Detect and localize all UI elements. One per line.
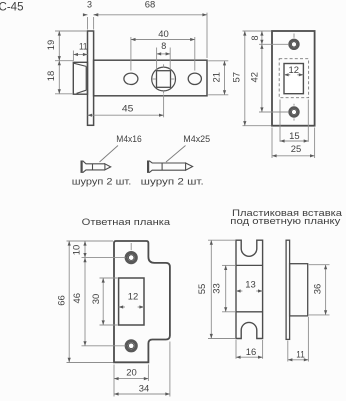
dim 3 (faceplate thickness) ext lines: [87, 17, 89, 30]
svg-text:33: 33: [211, 283, 221, 294]
dim 57 ext line: [243, 125, 272, 127]
svg-text:11: 11: [79, 42, 88, 52]
screw M4x25: [148, 161, 193, 173]
svg-text:под ответную планку: под ответную планку: [230, 216, 340, 227]
dim 8 line+arrows: [157, 53, 171, 55]
dim 68 line+arrows: [94, 14, 207, 16]
faceplate front view: dashed cutout: [279, 59, 308, 98]
latch side view: spindle square hole: [157, 71, 171, 88]
dim 13 arrows: [236, 290, 242, 292]
svg-text:8: 8: [161, 41, 166, 51]
svg-text:12: 12: [289, 65, 300, 75]
dim 20 line+arrows: [114, 378, 148, 380]
faceplate front view: bottom screw hole: [290, 108, 299, 117]
insert side view flange: [286, 240, 290, 339]
svg-text:30: 30: [91, 294, 101, 305]
dim 57 line+arrows: [244, 31, 246, 126]
dim 16 line+arrows: [236, 356, 263, 358]
strike plate top hole: [126, 253, 136, 263]
dim 15 line+arrows: [280, 140, 308, 142]
dim 66 line+arrows: [68, 241, 70, 362]
dim 45 line+arrows: [88, 114, 164, 116]
svg-text:3: 3: [87, 0, 92, 10]
svg-text:45: 45: [122, 103, 134, 113]
dim 30 ext lines: [100, 277, 118, 279]
svg-text:13: 13: [245, 279, 256, 289]
latch side view: spindle circle: [152, 67, 176, 91]
svg-text:57: 57: [232, 72, 242, 83]
latch side view: square centerline ticks: [153, 78, 157, 80]
screw M4x16: [82, 161, 111, 173]
dim 55 line+arrows: [210, 240, 212, 338]
svg-text:66: 66: [57, 295, 67, 306]
dim 3 line+arrows: [83, 14, 88, 16]
insert front view divider bottom: [236, 311, 263, 313]
svg-text:12: 12: [128, 291, 139, 301]
dim 25 line+arrows: [272, 155, 315, 157]
svg-text:C-45: C-45: [0, 2, 24, 14]
dim 55 ext lines: [208, 239, 235, 241]
svg-text:20: 20: [126, 368, 137, 378]
dim 68 ext line: [206, 13, 208, 58]
faceplate front view: plate: [272, 31, 315, 126]
dim 11 line+arrows: [73, 54, 87, 56]
dim 11 line+arrows: [288, 359, 309, 361]
dim 66 ext lines: [67, 240, 114, 242]
dim 10 line+arrows: [84, 241, 86, 258]
svg-text:шуруп 2 шт.: шуруп 2 шт.: [141, 176, 204, 186]
insert front view outline: [236, 240, 263, 338]
dim 11 ext line: [72, 51, 74, 62]
svg-text:10: 10: [72, 245, 82, 256]
faceplate front view: latch window: [284, 64, 303, 94]
latch side view: right oval hole: [188, 73, 201, 84]
dim 8 (plate) line+arrows: [261, 31, 263, 44]
dim 33 line+arrows: [225, 265, 227, 311]
dim 34 line+arrows: [114, 393, 170, 395]
svg-text:34: 34: [139, 383, 150, 393]
svg-text:68: 68: [145, 0, 156, 10]
svg-text:Ответная планка: Ответная планка: [82, 217, 171, 228]
svg-text:18: 18: [46, 71, 56, 82]
svg-text:16: 16: [246, 347, 257, 357]
svg-text:шуруп 2 шт.: шуруп 2 шт.: [72, 176, 132, 186]
dim 42 ext line: [259, 111, 289, 113]
svg-text:19: 19: [46, 40, 56, 51]
strike plate outline: [114, 241, 170, 362]
svg-text:40: 40: [158, 29, 169, 39]
dim 19 line+arrows: [58, 31, 60, 61]
dim 34 ext line: [169, 342, 171, 397]
svg-text:M4x25: M4x25: [183, 134, 210, 144]
dim 12 (strike window) arrows: [119, 306, 125, 308]
dim 46 line+arrows: [84, 258, 86, 346]
dim 36 ext lines: [309, 264, 330, 266]
dim 19 ext lines: [55, 30, 87, 32]
strike plate bottom hole: [126, 341, 136, 351]
latch side view: left oval hole: [124, 73, 138, 84]
svg-text:55: 55: [197, 284, 207, 295]
dim 20 ext lines: [113, 365, 115, 397]
dim 16 ext lines: [235, 340, 237, 359]
latch side view: body: [94, 60, 207, 96]
dim 45 ext line: [163, 95, 165, 118]
insert front view divider top: [236, 264, 263, 266]
latch side view: faceplate: [88, 31, 94, 125]
svg-text:25: 25: [291, 144, 302, 154]
dim 40 ext lines: [130, 37, 132, 71]
label M4x16 leader: [100, 146, 119, 163]
svg-text:36: 36: [312, 284, 322, 295]
dim 46 ext lines: [82, 257, 126, 259]
dim 36 line+arrows: [325, 265, 327, 315]
svg-text:11: 11: [296, 350, 305, 360]
latch side view: latch bolt: [73, 62, 87, 94]
dim 18 line+arrows: [58, 61, 60, 94]
svg-text:42: 42: [249, 72, 259, 83]
dim 21 line+arrows: [224, 61, 226, 95]
svg-text:15: 15: [289, 131, 300, 141]
svg-text:46: 46: [72, 293, 82, 304]
dim 12 (window) arrows: [284, 74, 290, 76]
dim 15 ext lines: [279, 100, 281, 142]
svg-text:M4x16: M4x16: [116, 134, 141, 144]
dim 21 ext lines: [208, 60, 228, 62]
svg-text:21: 21: [212, 72, 222, 83]
svg-text:8: 8: [250, 35, 260, 40]
faceplate front view: top screw hole: [290, 40, 299, 49]
dim 8 (plate) ext lines: [243, 30, 272, 32]
label M4x25 leader: [166, 146, 186, 163]
dim 18 ext line: [55, 93, 73, 95]
dim 40 line+arrows: [131, 39, 195, 41]
dim 11 ext lines: [287, 341, 289, 362]
dim 33 ext lines: [222, 264, 235, 266]
dim 8 ext lines: [156, 48, 158, 70]
dim 42 line+arrows: [261, 44, 263, 112]
insert side view body: [290, 264, 308, 316]
dim 30 line+arrows: [102, 278, 104, 325]
dim 25 ext lines: [271, 128, 273, 159]
strike plate window: [119, 278, 144, 325]
